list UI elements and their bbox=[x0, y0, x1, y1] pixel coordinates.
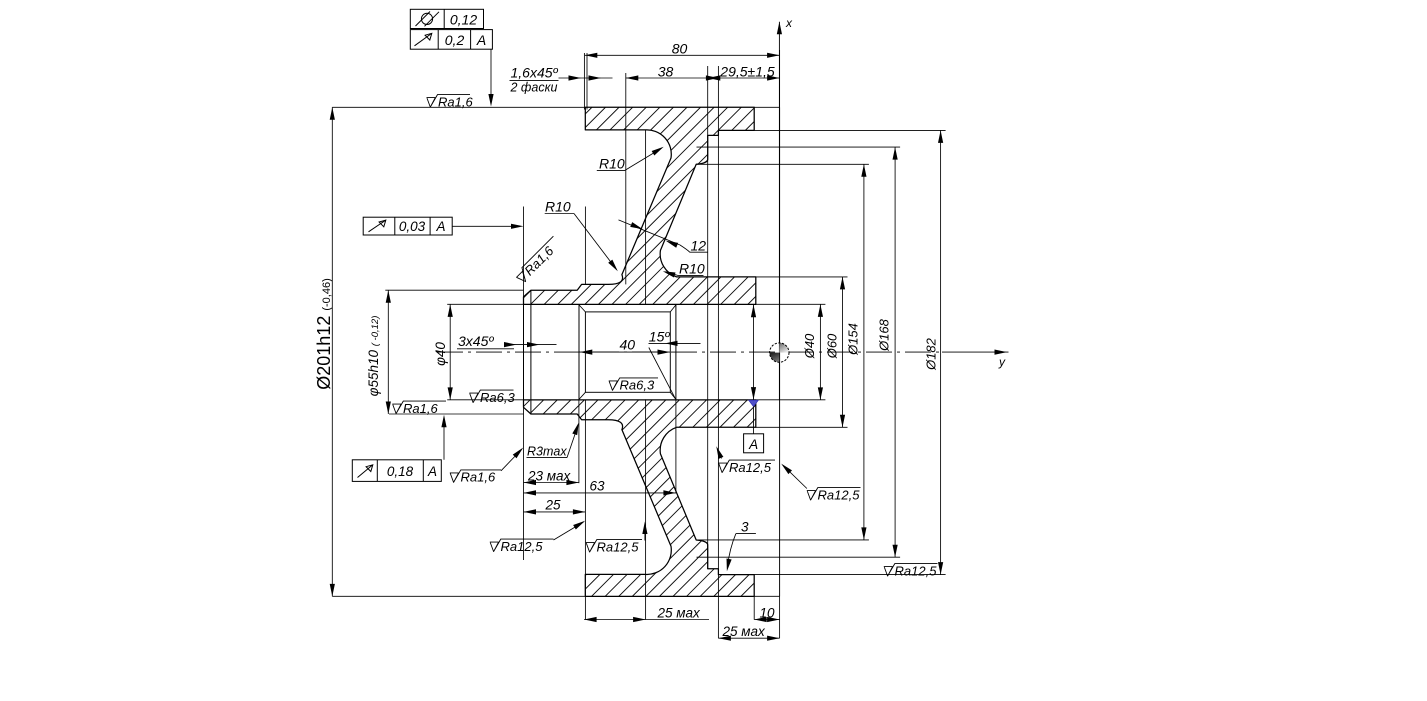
outer surface lines right of section end bbox=[754, 106, 779, 108]
boss outer extension lines bbox=[756, 276, 848, 278]
svg-text:A: A bbox=[427, 464, 437, 479]
surface finish Ra12,5 lower left with leader bbox=[490, 539, 554, 552]
svg-text:2 фаски: 2 фаски bbox=[510, 81, 558, 95]
extension line x=645.6 bbox=[645, 130, 647, 305]
leader from frames down to outer surface bbox=[490, 49, 492, 98]
svg-text:A: A bbox=[435, 219, 445, 234]
svg-text:63: 63 bbox=[590, 479, 606, 494]
Ø168 bore surface + extension bbox=[697, 146, 901, 148]
extension line x=675.9 down to 63 dim bbox=[675, 400, 677, 494]
extension line x=754.2 below bbox=[753, 596, 755, 619]
dimension 23 max bbox=[524, 482, 579, 484]
svg-text:R3max: R3max bbox=[527, 444, 567, 458]
recess corner chamfer lines bbox=[579, 305, 585, 312]
svg-text:Ra1,6: Ra1,6 bbox=[461, 470, 496, 485]
svg-text:Ra12,5: Ra12,5 bbox=[501, 539, 544, 554]
svg-text:0,12: 0,12 bbox=[450, 11, 477, 27]
dimension 10 bbox=[754, 619, 779, 621]
surface finish Ra1,6 on outer surface bbox=[427, 95, 471, 108]
dimension Ø182 bbox=[940, 130, 942, 574]
outer surface extension lines to Ø201 dimension bbox=[332, 106, 585, 108]
surface finish Ra6,3 left bbox=[469, 390, 513, 403]
surface finish Ra6,3 in recess bbox=[609, 378, 658, 391]
15 degree cone line in recess bbox=[649, 348, 676, 399]
bore right extension lines bbox=[756, 303, 826, 305]
ball at coordinate origin bbox=[770, 343, 789, 362]
svg-text:Ø168: Ø168 bbox=[877, 318, 892, 352]
svg-text:3: 3 bbox=[741, 519, 749, 534]
leader to hub face line bbox=[452, 225, 512, 227]
central recess inner rectangle bbox=[585, 312, 670, 392]
hatched section lower half of drum/web/boss/hub bbox=[524, 400, 756, 596]
svg-text:40: 40 bbox=[620, 336, 636, 352]
hatched section upper half of drum/web/boss/hub bbox=[524, 107, 756, 304]
svg-text:Ø60: Ø60 bbox=[825, 333, 840, 359]
svg-text:Ø40: Ø40 bbox=[802, 333, 817, 359]
drum right end face silhouette bbox=[779, 107, 781, 596]
svg-text:Ø182: Ø182 bbox=[924, 337, 939, 371]
chamfer twin extension lines above drum left face bbox=[583, 53, 585, 110]
extension line x=578.9 down to 23max bbox=[578, 399, 580, 483]
tolerance frame 0,18 A bbox=[352, 460, 441, 482]
surface finish Ra12,5 bottom right bbox=[884, 564, 938, 577]
dimension Ø168 bbox=[894, 147, 896, 557]
svg-text:R10: R10 bbox=[599, 155, 625, 171]
dimension 25 max bottom right bbox=[718, 637, 779, 639]
web thickness dimension 12 bbox=[619, 220, 680, 245]
dimension Ø201h12 line bbox=[331, 107, 333, 596]
surface finish Ra12,5 right2 with leader bbox=[807, 488, 861, 501]
svg-text:10: 10 bbox=[760, 605, 776, 620]
extension line x=585.4 upper bbox=[584, 207, 586, 285]
dimension Ø40 right bbox=[819, 304, 821, 400]
leader from 0,18 frame up to hub surface bbox=[443, 421, 445, 460]
svg-text:y: y bbox=[998, 355, 1006, 369]
svg-text:29,5±1,5: 29,5±1,5 bbox=[719, 64, 775, 80]
hub bore far-side face line bbox=[523, 304, 525, 400]
hub face chamfer edge 3x45 bbox=[530, 290, 532, 414]
svg-text:Ra1,6: Ra1,6 bbox=[438, 94, 473, 109]
svg-text:1,6x45º: 1,6x45º bbox=[511, 65, 559, 81]
dimension 63 bbox=[524, 492, 676, 494]
hub face long extension line bbox=[523, 207, 525, 561]
svg-text:A: A bbox=[748, 437, 758, 452]
svg-text:Ra6,3: Ra6,3 bbox=[620, 378, 655, 393]
centerline dash-dot bbox=[437, 351, 942, 353]
svg-text:Ra12,5: Ra12,5 bbox=[597, 539, 640, 554]
central recess outer rectangle bbox=[578, 304, 580, 400]
oblique surface finish Ra1,6 on hub bbox=[514, 236, 564, 286]
Ø182 bore surface + extension bbox=[754, 129, 945, 131]
svg-text:R10: R10 bbox=[679, 261, 705, 277]
surface finish Ra1,6 under hub bbox=[392, 401, 446, 414]
svg-text:φ40: φ40 bbox=[433, 342, 448, 366]
dimension 25 max bottom left bbox=[584, 619, 709, 621]
svg-text:0,18: 0,18 bbox=[387, 464, 414, 479]
svg-text:0,2: 0,2 bbox=[445, 32, 465, 48]
svg-text:R10: R10 bbox=[545, 198, 571, 214]
svg-text:25 мах: 25 мах bbox=[722, 624, 767, 639]
tolerance frame cylindricity 0,12 bbox=[410, 9, 492, 49]
svg-text:Ra12,5: Ra12,5 bbox=[818, 487, 861, 502]
svg-text:A: A bbox=[476, 32, 486, 48]
surface finish Ra1,6 lower left with leader bbox=[450, 470, 501, 483]
cylindricity symbol bbox=[416, 12, 440, 27]
extension line x=625.8 for 38 bbox=[625, 73, 627, 284]
dimension 40 inside recess bbox=[579, 351, 670, 353]
svg-text:0,03: 0,03 bbox=[399, 219, 426, 234]
surface finish Ra12,5 center bottom with leader bbox=[586, 540, 642, 553]
dimension 25 bbox=[524, 511, 586, 513]
hub outer extension lines bbox=[385, 289, 523, 291]
runout arrow symbol in 0,2 frame bbox=[415, 33, 432, 46]
svg-text:23 мах: 23 мах bbox=[527, 468, 572, 483]
extension line x=718.4 bbox=[717, 66, 719, 638]
surface finish Ra12,5 right1 with leader bbox=[718, 460, 775, 473]
svg-text:Ø154: Ø154 bbox=[846, 323, 861, 356]
svg-text:25: 25 bbox=[545, 498, 562, 513]
x axis line bbox=[778, 22, 780, 400]
svg-text:38: 38 bbox=[658, 64, 674, 80]
svg-text:Ra1,6: Ra1,6 bbox=[403, 401, 438, 416]
datum A flag bbox=[749, 400, 759, 406]
bore extension lines left bbox=[447, 303, 523, 305]
svg-text:3x45º: 3x45º bbox=[458, 333, 494, 349]
tolerance frame 0,03 A bbox=[363, 217, 452, 235]
svg-text:80: 80 bbox=[672, 41, 688, 57]
svg-text:Ra12,5: Ra12,5 bbox=[895, 563, 938, 578]
svg-text:x: x bbox=[785, 16, 793, 30]
dimension 80 bbox=[585, 54, 780, 56]
svg-text:Ra12,5: Ra12,5 bbox=[729, 460, 772, 475]
extension line x=707.7 bbox=[707, 66, 709, 569]
dimension Ø154 bbox=[863, 164, 865, 540]
svg-text:25 мах: 25 мах bbox=[657, 605, 702, 620]
dimension 38 and 29,5±1,5 bbox=[626, 77, 780, 79]
datum dimension line at boss face bbox=[753, 305, 755, 400]
dimension phi40 line bbox=[449, 304, 451, 400]
dimension phi55h10 line bbox=[387, 290, 389, 414]
svg-text:12: 12 bbox=[691, 238, 707, 254]
Ø154 bore surface + extension bbox=[696, 163, 869, 165]
y axis line bbox=[942, 351, 1009, 353]
svg-text:15º: 15º bbox=[649, 329, 671, 345]
svg-text:Ra6,3: Ra6,3 bbox=[480, 390, 515, 405]
dimension Ø60 bbox=[842, 277, 844, 427]
extension line x=585.4 lower bbox=[584, 400, 586, 620]
